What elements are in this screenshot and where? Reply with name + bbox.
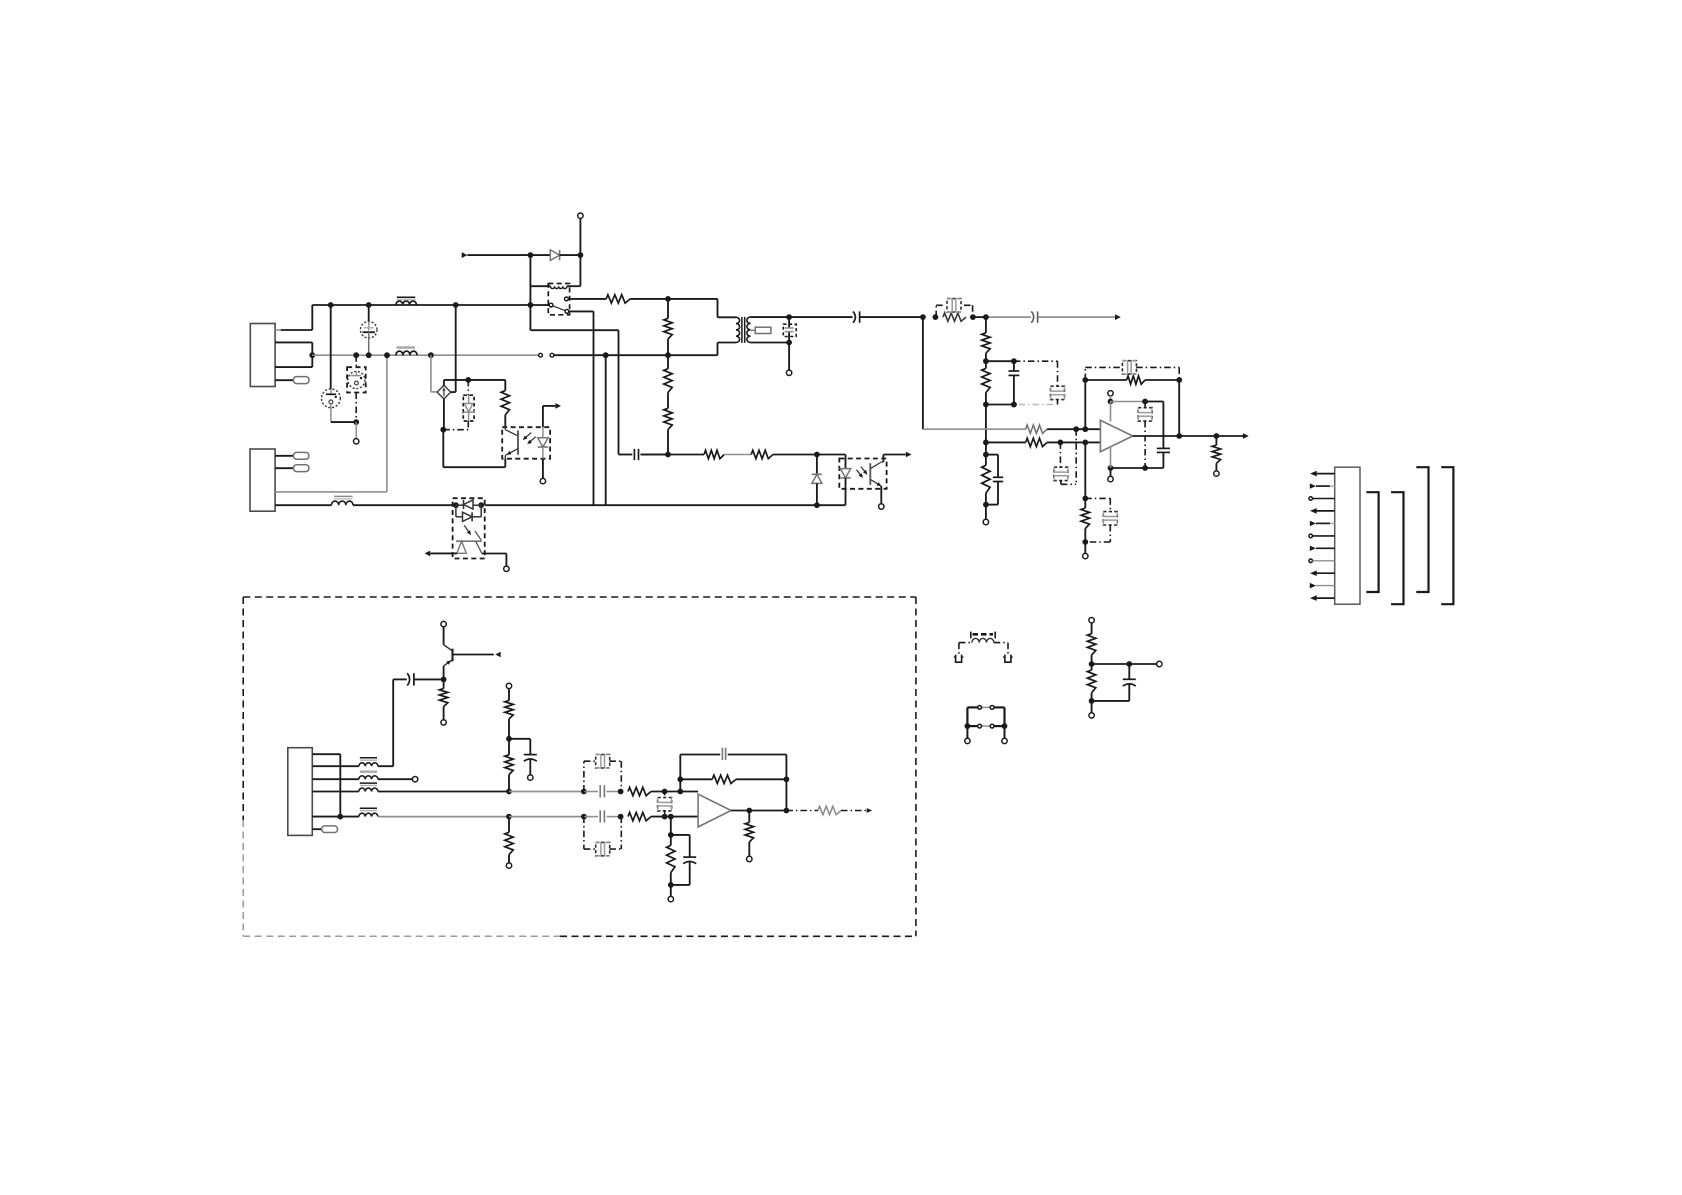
choke L1 winding B — [396, 351, 417, 355]
CN4 pin 4 — [1317, 510, 1335, 512]
PC2 right terminal — [482, 553, 507, 555]
relay K1 contacts — [530, 304, 549, 306]
capacitor C16 — [584, 791, 598, 793]
bracket group 4 — [1441, 467, 1453, 604]
signal arrow RLYDRV in — [462, 252, 468, 258]
capacitor C3 (dashed box across secondary) — [788, 317, 790, 328]
wire relay coil left — [529, 255, 531, 305]
node RX rail — [920, 314, 926, 320]
capacitor C9 (dash-dot between inputs) — [1059, 442, 1061, 467]
L4 pad left — [956, 655, 962, 663]
capacitor C14 (coupling) — [414, 678, 444, 680]
T1 shield box — [751, 329, 755, 331]
node rail1 relay junction — [528, 302, 534, 308]
resistor R2c — [664, 408, 672, 429]
signal arrow RXA out — [1115, 314, 1121, 320]
transformer T1 core — [741, 317, 743, 343]
op-amp U1 output — [1133, 435, 1243, 437]
wire T1 secondary bottom — [751, 342, 790, 344]
wire CN1 pin3 — [275, 366, 312, 368]
PC2 light arrow — [464, 525, 470, 533]
capacitor C21 (feedback) — [679, 755, 681, 780]
bridge rectifier BR1 (diamond) — [437, 385, 451, 399]
resistor R9 — [1215, 436, 1217, 445]
node R1-transformer — [665, 296, 671, 302]
connector CN1 — [250, 324, 275, 387]
bracket group 3 — [1416, 467, 1428, 592]
terminal R12 bottom — [441, 720, 446, 725]
signal arrow TXB in — [495, 652, 500, 657]
terminal Q1-C — [441, 621, 446, 626]
wire T1 primary bottom — [718, 342, 737, 344]
node Q1-E — [441, 677, 447, 683]
capacitor C8 (dash-dot option) — [1014, 360, 1058, 362]
op-amp U2 — [698, 794, 731, 827]
resistor R2a — [667, 299, 669, 319]
choke L1 winding A — [396, 301, 417, 305]
transformer T1 primary — [736, 317, 740, 342]
terminal R15 — [506, 863, 511, 868]
op-amp U1 — [1100, 420, 1132, 451]
transformer T1 secondary — [747, 317, 751, 342]
resistor R17 — [628, 812, 651, 820]
resistor R13 — [508, 689, 510, 701]
capacitor C19 (dash-dot box lower) — [583, 817, 585, 850]
wire CN2 pin3 (grey) to rail2 tap — [275, 491, 387, 493]
resistor R21 — [1091, 623, 1093, 634]
wire CN3 pin1 bus — [312, 753, 340, 755]
optocoupler PC3 — [817, 454, 846, 456]
zener D3 (dashed box) — [443, 429, 468, 431]
op-amp U2 output — [731, 810, 786, 812]
resistor R12 — [443, 679, 445, 688]
feedback resistor R18 — [680, 778, 712, 780]
CN4 pin 5 — [1310, 521, 1316, 526]
node D2 top — [814, 452, 820, 458]
resistor R10 — [704, 450, 724, 458]
wire to C22 and terminal — [1092, 663, 1130, 665]
wire rail1 tap down-right — [529, 305, 531, 330]
diode D1 (relay flyback) — [530, 254, 550, 256]
terminal GND4 — [668, 896, 673, 901]
resistor R8 — [1084, 498, 1086, 508]
terminal L3b — [412, 777, 417, 782]
node rail2 bridge tap — [428, 352, 434, 358]
R-C parallel (dash-dot) R3 — [933, 314, 939, 320]
node R14 tap — [506, 789, 512, 795]
capacitor C11 (dash-dot parallel R8) — [1085, 497, 1110, 499]
R-C to ground at U2 minus — [670, 817, 672, 835]
wire CN3 pin5 — [312, 816, 340, 818]
terminal GND1 — [983, 519, 988, 524]
wire F1 to SA2 node — [331, 421, 356, 423]
signal arrow RXB out — [867, 808, 872, 813]
wire relay line down to bridge — [455, 305, 457, 392]
node diode anode — [528, 252, 534, 258]
resistor R6 — [504, 380, 506, 391]
dashed enclosure box — [243, 596, 916, 598]
resistor R15 — [508, 817, 510, 833]
op-amp U1 power pins — [1108, 391, 1113, 396]
signal arrow HOOK out — [906, 452, 912, 458]
transistor Q1 — [443, 627, 445, 645]
inductor L3a — [312, 765, 359, 767]
resistor R16 — [628, 787, 651, 795]
resistor R11 — [751, 450, 773, 458]
capacitor C17 (dash-dot box upper) — [583, 761, 585, 791]
bead FB1 on CN1 pin4 — [275, 379, 293, 381]
optocoupler PC1 — [502, 427, 550, 459]
inline connector contacts on N line — [539, 353, 543, 357]
wire divider to op-amp minus — [985, 405, 987, 443]
resistor R5 — [985, 361, 987, 368]
PC2 triac — [475, 531, 481, 540]
Q1 base line — [453, 654, 494, 656]
node R13-R14 — [506, 736, 512, 742]
wire bridge loop bottom — [442, 430, 444, 468]
capacitor C4 (series) — [789, 316, 853, 318]
bead FB3 — [275, 467, 293, 469]
bracket group 2 — [1391, 492, 1403, 604]
signal arrow TXA out — [1243, 433, 1249, 439]
PC1 phototransistor — [504, 427, 506, 430]
PC1 LED — [542, 427, 544, 438]
capacitor C18 — [584, 816, 598, 818]
bead FB4 on CN3 pin6 — [312, 828, 321, 830]
resistor R14 — [508, 739, 510, 755]
capacitor C2 (series) — [619, 454, 633, 456]
resistor R22 — [1091, 664, 1093, 670]
terminal PC3-E — [879, 504, 884, 509]
capacitor C6 (series) — [1031, 311, 1033, 322]
terminal GND2 — [1083, 553, 1088, 558]
resistor R1 — [606, 295, 630, 303]
surge arrester SA2 — [353, 352, 359, 358]
CN4 pin 7 — [1310, 546, 1316, 551]
capacitor C15 to terminal — [509, 738, 530, 740]
terminal T1 ground — [788, 343, 790, 371]
node D2 bottom — [814, 502, 820, 508]
diode D2 — [816, 455, 818, 475]
PC3 light arrows — [857, 470, 862, 477]
CN4 pin 6 — [1309, 534, 1313, 538]
node rail1-relay — [453, 302, 459, 308]
wire CN1 pin1 to L line — [275, 329, 281, 331]
PC2 output arrow — [430, 552, 457, 554]
node N line start — [309, 352, 315, 358]
output dash-dot with resistor R19 — [786, 810, 818, 812]
node chain-rail2 — [665, 352, 671, 358]
node R21-R22 — [1089, 661, 1095, 667]
terminal R20 — [747, 856, 752, 861]
capacitor C12 (supply) — [1157, 447, 1170, 449]
wire line continues — [485, 504, 817, 506]
node zener top — [465, 377, 471, 383]
wire rail2 tap down — [603, 352, 609, 358]
wire AC line L (top rail) — [312, 304, 530, 306]
bracket group 1 — [1366, 492, 1378, 592]
wire RX to C6 — [973, 316, 986, 318]
inductor L2 on CN2 pin4 — [275, 504, 331, 506]
connector CN4 — [1335, 467, 1360, 604]
resistor R20 — [748, 811, 750, 823]
L4 pad right — [1005, 655, 1011, 663]
wire T1 secondary top — [751, 316, 790, 318]
CN4 pin 2 — [1310, 483, 1316, 488]
node R4-R5 — [983, 358, 989, 364]
feedback resistor R7 — [1085, 379, 1126, 381]
CN4 pin 3 — [1309, 497, 1313, 501]
wire NO contact to R1 — [568, 298, 606, 300]
capacitor C10 (dash-dot over feedback) — [1084, 367, 1086, 380]
PC1 LED cathode to terminal — [542, 459, 544, 479]
fuse F1 (thermal cutoff) — [328, 302, 334, 308]
inductor L3c — [312, 791, 359, 793]
CN4 pin 8 — [1309, 559, 1313, 563]
capacitor C20 (between lines) — [664, 792, 666, 799]
inductor L3d — [340, 816, 359, 818]
terminal R13 top — [506, 683, 511, 688]
wire to C16 — [509, 791, 584, 793]
CN4 pin 9 — [1317, 572, 1335, 574]
resistor R4 — [985, 317, 987, 333]
wire to T1 primary — [668, 298, 718, 300]
wire to C18 — [509, 816, 584, 818]
Q1 emitter — [444, 660, 453, 666]
jumper JP1 — [967, 706, 977, 708]
capacitor C22 — [1128, 664, 1130, 679]
optocoupler PC2 — [453, 498, 485, 558]
capacitor C5 bracket glyph — [947, 299, 961, 312]
terminal R22 bottom — [1089, 713, 1094, 718]
node chain-cap line — [665, 452, 671, 458]
CN4 pin 11 — [1317, 597, 1335, 599]
PC2 diode pair — [453, 502, 459, 508]
wire CN1 pin2 — [275, 341, 312, 343]
capacitor CX1 (circle symbol) — [366, 302, 372, 308]
resistor R2b — [667, 355, 669, 369]
connector CN2 — [250, 449, 275, 511]
op-amp U1 minus path — [986, 441, 1026, 443]
PC3 phototransistor — [869, 463, 871, 485]
inductor L3b — [312, 778, 359, 780]
node bridge-zener — [440, 427, 446, 433]
wire NC contact down — [569, 310, 594, 312]
wire rail2 to bridge — [430, 355, 432, 392]
wire AC line N (second rail, grey) — [312, 354, 539, 356]
terminal E1 — [354, 439, 359, 444]
CN4 pin 10 — [1310, 583, 1316, 589]
node lower line R15 tap — [506, 814, 512, 820]
wire feedback to output — [785, 779, 787, 810]
PC3 emitter — [870, 479, 881, 486]
PC1 LED anode signal — [542, 406, 544, 427]
terminal VEE — [1108, 476, 1113, 481]
wire plus input — [680, 791, 698, 793]
wire bridge bottom — [443, 399, 445, 430]
terminal R21 top — [1089, 618, 1094, 623]
bead FB2 — [275, 455, 293, 457]
capacitor C7 parallel — [986, 360, 1014, 362]
capacitor C13 (dash-dot supply) — [1144, 402, 1146, 408]
wire hook-switch line — [641, 454, 669, 456]
terminal T-RLY — [578, 213, 583, 218]
wire minus node to lower resistor — [1084, 442, 1086, 498]
CN4 pin 1 — [1317, 473, 1335, 475]
inductor L4 (dash-dot) — [973, 633, 994, 636]
relay K1 coil — [548, 284, 569, 315]
PC1 light arrows — [529, 437, 536, 443]
connector CN3 — [288, 748, 313, 836]
wire bridge top — [443, 380, 445, 385]
op-amp U1 plus path — [922, 317, 924, 429]
signal arrow TXOUT — [555, 403, 561, 409]
R-C to ground at minus input — [986, 454, 998, 456]
terminal GND3 — [1214, 471, 1219, 476]
